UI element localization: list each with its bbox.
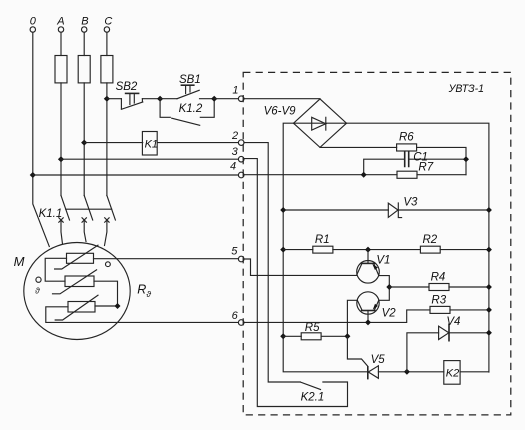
svg-text:K2.1: K2.1 <box>301 392 325 404</box>
svg-text:ϑ: ϑ <box>146 289 151 299</box>
svg-text:A: A <box>56 16 64 28</box>
wire motor bottom rail to terminal 6 <box>46 307 239 323</box>
wire neutral 0 line <box>33 32 50 246</box>
node motor junction <box>115 303 121 309</box>
wire motor left rail <box>45 258 66 281</box>
terminal 5 <box>231 245 244 261</box>
svg-text:R3: R3 <box>431 295 446 307</box>
wire terminal 6 row to R3 <box>244 310 430 323</box>
svg-text:V4: V4 <box>446 316 460 328</box>
terminal 3 <box>232 146 244 162</box>
node V3 right rail <box>486 207 492 213</box>
node C / SB2 branch <box>104 96 110 102</box>
node C1 right rail <box>463 156 469 162</box>
wire K1 to terminal 2 <box>158 142 238 144</box>
svg-text:K1.2: K1.2 <box>179 103 203 115</box>
svg-text:M: M <box>14 254 25 269</box>
motor winding terminal right <box>106 262 111 267</box>
wire to terminal 1 <box>214 98 238 100</box>
relay coil K2 <box>444 361 460 385</box>
svg-text:R7: R7 <box>418 162 433 174</box>
transistor V2 <box>357 292 396 323</box>
wire R4 left <box>389 286 429 288</box>
terminal 1 <box>232 85 244 102</box>
wire V4 to rail <box>449 332 489 334</box>
node V2 base on terminal 6 row <box>365 319 371 325</box>
motor M <box>14 243 131 340</box>
wire V5 gate <box>347 336 367 366</box>
node R2 right rail <box>486 247 492 253</box>
wire phase C upper <box>106 32 108 55</box>
node V3 left <box>280 207 286 213</box>
svg-text:K1: K1 <box>145 139 158 151</box>
wire terminal 1 to bridge <box>244 98 320 100</box>
wire motor to terminal 5 <box>94 258 239 260</box>
fuse FU2 <box>78 56 90 83</box>
svg-text:6: 6 <box>232 310 239 322</box>
wire phase B to contact <box>83 83 85 196</box>
wire B to K1 <box>84 142 143 144</box>
wire R2 to rail <box>440 249 489 251</box>
fuse FU1 <box>55 56 67 83</box>
zener diode V3 <box>388 196 418 217</box>
svg-text:V6-V9: V6-V9 <box>264 106 297 118</box>
wire V3 row left <box>283 209 388 211</box>
contact K1.2 <box>160 99 214 126</box>
wire terminal 5 to V1 collector <box>244 259 357 275</box>
node V4 right rail <box>486 330 492 336</box>
node R5 right / V2 collector <box>344 333 350 339</box>
terminal 6 <box>232 310 244 326</box>
svg-text:R2: R2 <box>423 234 438 246</box>
svg-text:R1: R1 <box>315 234 330 246</box>
node SB1 left <box>157 96 163 102</box>
node V1 base <box>365 247 371 253</box>
resistor R2 <box>420 234 440 253</box>
wire phase C to motor <box>105 220 107 246</box>
wire V3 row right <box>398 209 489 211</box>
wire C to SB2 <box>107 98 122 100</box>
wire V5 anode to K2 <box>378 371 443 373</box>
wire 0 to terminal 4 <box>33 174 239 176</box>
wire R5 left <box>283 335 301 337</box>
node R3 right rail <box>486 307 492 313</box>
node SB1 right <box>211 96 217 102</box>
node 0 / terminal 4 branch <box>30 172 36 178</box>
motor winding terminal left <box>35 277 41 296</box>
node B / K1 branch <box>81 140 87 146</box>
svg-text:V2: V2 <box>382 307 397 319</box>
svg-text:0: 0 <box>30 16 37 28</box>
svg-text:R: R <box>137 283 146 297</box>
wire phase A to contact <box>60 83 62 196</box>
terminal 4 <box>230 160 244 177</box>
wire A to terminal 3 <box>61 158 238 160</box>
wire motor bottom-right <box>95 305 118 307</box>
svg-text:1: 1 <box>232 85 238 97</box>
wire phase C to contact <box>106 83 108 196</box>
wire SB2 to node <box>142 98 160 100</box>
thermistor Rt2 <box>53 270 97 294</box>
resistor R4 <box>429 272 449 291</box>
pushbutton SB2 <box>116 81 143 109</box>
resistor R5 <box>301 322 321 340</box>
svg-text:4: 4 <box>230 160 236 172</box>
svg-text:V3: V3 <box>403 196 418 208</box>
wire K2 to rail <box>460 371 489 373</box>
thyristor V5 <box>368 354 385 378</box>
label R-theta <box>137 283 151 299</box>
resistor R7 <box>397 162 434 179</box>
resistor R6 <box>397 132 417 151</box>
terminal B <box>81 16 88 33</box>
terminal A <box>56 16 64 33</box>
contact K2.1 blade <box>301 382 321 389</box>
wire R5 right <box>321 335 347 337</box>
wire bridge left to left rail <box>283 123 367 372</box>
thermistor Rt1 <box>55 245 98 269</box>
wire V2 collector to R5 node <box>347 300 357 336</box>
pushbutton SB1 <box>160 74 201 99</box>
capacitor C1 <box>364 151 466 174</box>
svg-text:C: C <box>104 16 112 28</box>
fuse FU3 <box>101 56 113 83</box>
svg-text:УВТЗ-1: УВТЗ-1 <box>448 83 484 95</box>
svg-text:B: B <box>81 16 88 28</box>
contact K2.1 loop terminal 2 side <box>244 143 300 382</box>
wire motor mid-right down <box>94 281 118 306</box>
terminal C <box>104 16 112 33</box>
svg-text:5: 5 <box>231 245 238 257</box>
svg-text:R4: R4 <box>431 272 446 284</box>
svg-text:K2: K2 <box>446 367 459 379</box>
thermistor Rt3 <box>55 295 98 320</box>
wire bridge right to right rail <box>347 123 489 372</box>
transistor V1 <box>357 250 391 284</box>
node R1 left rail <box>280 247 286 253</box>
wire R7 to rail <box>417 174 466 176</box>
resistor R1 <box>313 234 333 253</box>
node R7 left <box>361 172 367 178</box>
wire R3 to rail <box>450 309 489 311</box>
bridge rectifier V6-V9 <box>264 99 347 147</box>
wire phase B upper <box>83 32 85 55</box>
contactor contacts K1.1 <box>39 196 116 223</box>
wire R6 to R7 rail <box>417 147 466 174</box>
node R4 right rail <box>486 284 492 290</box>
svg-text:SB1: SB1 <box>179 74 201 86</box>
wire phase A upper <box>60 32 62 55</box>
node V4 bottom / K2 left <box>404 369 410 375</box>
svg-text:K1.1: K1.1 <box>39 208 63 220</box>
wire V4 branch <box>407 333 439 372</box>
wire phase A to motor <box>61 220 63 244</box>
svg-text:3: 3 <box>232 146 239 158</box>
wire V1 emitter to V2 emitter <box>379 276 390 301</box>
wire terminal 4 row <box>244 174 397 176</box>
wire R1 left <box>283 249 313 251</box>
wire R4 to rail <box>449 286 489 288</box>
contact K2.1 loop terminal 3 side <box>243 159 347 407</box>
wire bridge bottom to R6 <box>320 146 397 148</box>
wire phase B to motor <box>84 220 86 242</box>
node R5 left rail <box>280 333 286 339</box>
wire SB1 right <box>200 98 215 100</box>
terminal 0 <box>30 16 37 33</box>
resistor R3 <box>430 295 450 314</box>
svg-text:V5: V5 <box>371 354 386 366</box>
enclosure UVTZ-1 dashed box <box>243 72 511 415</box>
relay coil K1 <box>142 132 158 156</box>
svg-text:ϑ: ϑ <box>35 286 40 296</box>
diode V4 <box>439 316 461 341</box>
wire R1 to V1 base node <box>333 249 421 251</box>
terminal 2 <box>231 130 244 145</box>
svg-text:SB2: SB2 <box>116 81 138 93</box>
svg-text:V1: V1 <box>376 255 390 267</box>
svg-text:R5: R5 <box>305 322 320 334</box>
node R4 left <box>386 284 392 290</box>
svg-text:R6: R6 <box>399 132 414 144</box>
svg-text:2: 2 <box>231 130 238 142</box>
node A / terminal 3 branch <box>58 156 64 162</box>
